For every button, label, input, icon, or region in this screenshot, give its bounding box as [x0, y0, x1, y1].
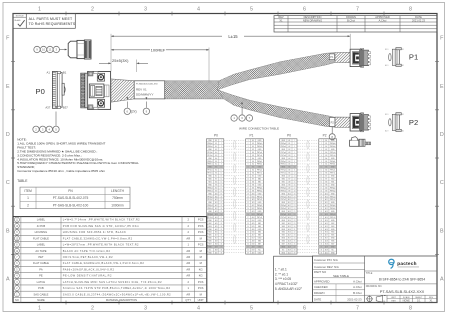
- svg-text:4: 4: [221, 149, 222, 151]
- svg-text:PART NO: PART NO: [314, 270, 327, 274]
- svg-text:3: 3: [144, 306, 147, 312]
- svg-text:PETn1: PETn1: [281, 173, 286, 175]
- svg-text:6: 6: [303, 7, 306, 13]
- svg-text:P0: P0: [287, 133, 291, 137]
- svg-text:2: 2: [221, 143, 222, 145]
- svg-text:19: 19: [320, 193, 322, 195]
- label P2 on branch: [330, 118, 335, 127]
- svg-text:7: 7: [356, 306, 359, 312]
- svg-text:4: 4: [248, 149, 249, 151]
- svg-text:100REF: 100REF: [151, 47, 166, 52]
- svg-text:SB3: SB3: [208, 226, 211, 228]
- svg-text:NEW DRAWING: NEW DRAWING: [303, 19, 322, 23]
- svg-text:B9: B9: [215, 190, 217, 192]
- svg-text:15: 15: [220, 181, 222, 183]
- svg-text:16: 16: [320, 184, 322, 186]
- svg-text:37: 37: [247, 247, 249, 249]
- svg-text:3: 3: [221, 146, 222, 148]
- svg-text:25: 25: [247, 211, 249, 213]
- svg-text:37: 37: [294, 247, 296, 249]
- svg-text:PA66+20%GF,BLACK,UL94V-0,R2: PA66+20%GF,BLACK,UL94V-0,R2: [63, 267, 115, 271]
- svg-text:33: 33: [294, 235, 296, 237]
- svg-text:4: 4: [197, 306, 200, 312]
- svg-text:PERp2: PERp2: [257, 187, 262, 189]
- svg-text:SB4: SB4: [331, 232, 334, 234]
- svg-text:RoHS: RoHS: [15, 20, 21, 22]
- svg-text:B6: B6: [252, 173, 254, 175]
- svg-text:E: E: [6, 84, 10, 90]
- svg-text:15: 15: [294, 181, 296, 183]
- cable label box: [134, 81, 165, 99]
- svg-text:SB7: SB7: [282, 244, 285, 246]
- svg-text:DRAWN: DRAWN: [314, 291, 324, 295]
- svg-text:6: 6: [248, 155, 249, 157]
- tolerance notes box: [274, 256, 313, 302]
- svg-text:8: 8: [248, 161, 249, 163]
- dimension 100REF: [111, 49, 150, 51]
- svg-text:PT-SAS-SLB-SL4X2-XXX: PT-SAS-SLB-SL4X2-XXX: [380, 289, 425, 294]
- svg-text:33: 33: [320, 235, 322, 237]
- svg-text:22: 22: [294, 202, 296, 204]
- svg-text:DRAWING NO.: DRAWING NO.: [366, 285, 383, 288]
- svg-text:PERn3: PERn3: [281, 208, 286, 210]
- svg-text:PERn2: PERn2: [281, 190, 286, 192]
- svg-text:22: 22: [220, 202, 222, 204]
- svg-text:PCS: PCS: [198, 243, 204, 247]
- svg-text:LABEL: LABEL: [37, 218, 46, 222]
- svg-text:B2: B2: [325, 149, 327, 151]
- svg-text:6: 6: [221, 155, 222, 157]
- svg-text:PERp2: PERp2: [207, 187, 212, 189]
- svg-text:B11: B11: [288, 202, 291, 204]
- svg-text:11: 11: [294, 170, 296, 172]
- svg-text:PETn0: PETn0: [281, 155, 286, 157]
- cable branch to P2: [218, 90, 336, 127]
- svg-text:B11: B11: [252, 202, 255, 204]
- svg-text:14: 14: [294, 179, 296, 181]
- svg-text:18: 18: [294, 190, 296, 192]
- svg-text:PETp2: PETp2: [207, 196, 212, 198]
- svg-text:24: 24: [294, 208, 296, 210]
- svg-text:B37: B37: [63, 106, 68, 110]
- svg-text:28: 28: [320, 220, 322, 222]
- svg-text:35: 35: [294, 241, 296, 243]
- svg-text:16: 16: [220, 184, 222, 186]
- svg-text:25±5(3X): 25±5(3X): [112, 58, 129, 63]
- svg-text:11: 11: [247, 170, 249, 172]
- svg-text:E: E: [440, 84, 444, 90]
- svg-text:PERp0: PERp0: [207, 143, 212, 145]
- svg-text:21: 21: [294, 199, 296, 201]
- svg-text:SB5: SB5: [208, 235, 211, 237]
- svg-text:SB7: SB7: [208, 244, 211, 246]
- svg-text:27: 27: [220, 217, 222, 219]
- svg-text:15: 15: [247, 181, 249, 183]
- svg-text:B10: B10: [325, 196, 328, 198]
- svg-text:B11: B11: [215, 202, 218, 204]
- svg-text:20: 20: [220, 196, 222, 198]
- svg-text:PERn3: PERn3: [257, 208, 262, 210]
- svg-text:DD/MMM/YY: DD/MMM/YY: [136, 92, 154, 96]
- svg-text:A.Chui: A.Chui: [353, 285, 362, 289]
- svg-text:AR: AR: [186, 249, 190, 253]
- svg-text:P2: P2: [323, 133, 327, 137]
- svg-text:B.Chui: B.Chui: [347, 19, 355, 23]
- svg-text:9: 9: [321, 164, 322, 166]
- svg-text:PETp3: PETp3: [207, 214, 212, 216]
- svg-text:32: 32: [294, 232, 296, 234]
- svg-text:B6: B6: [288, 173, 290, 175]
- svg-text:SB4: SB4: [282, 232, 285, 234]
- svg-text:PETp2: PETp2: [257, 196, 262, 198]
- svg-text:BLACK AC TAPE T=0.12mm,R2: BLACK AC TAPE T=0.12mm,R2: [63, 249, 111, 253]
- svg-text:B3: B3: [252, 155, 254, 157]
- svg-text:B14: B14: [215, 220, 218, 222]
- svg-text:PE: PE: [39, 274, 43, 278]
- svg-text:B19: B19: [385, 114, 388, 116]
- svg-text:1: 1: [248, 140, 249, 142]
- svg-text:8: 8: [409, 306, 412, 312]
- svg-text:30: 30: [294, 226, 296, 228]
- svg-text:A19: A19: [385, 129, 388, 132]
- svg-text:11: 11: [321, 170, 323, 172]
- svg-text:13: 13: [247, 176, 249, 178]
- svg-text:12: 12: [220, 173, 222, 175]
- svg-text:C: C: [440, 180, 444, 186]
- svg-text:PCB FOR SLIMLINE SAS 4i STR: PCB FOR SLIMLINE SAS 4i STR, AU30u",85 O…: [63, 224, 139, 228]
- svg-text:A: A: [440, 276, 444, 282]
- svg-text:B13: B13: [252, 214, 255, 216]
- svg-text:7: 7: [221, 158, 222, 160]
- svg-text:NOTICE: NOTICE: [16, 15, 24, 17]
- svg-text:PERp2: PERp2: [281, 187, 286, 189]
- title block: [313, 256, 438, 303]
- svg-text:B: B: [6, 228, 10, 234]
- svg-text:5: 5: [221, 152, 222, 154]
- svg-text:PETn0: PETn0: [207, 155, 212, 157]
- title text: [365, 270, 437, 272]
- svg-text:7: 7: [321, 158, 322, 160]
- svg-text:PERn2: PERn2: [207, 190, 212, 192]
- cable hatched segment at overmold exit: [111, 79, 134, 102]
- svg-text:23: 23: [294, 205, 296, 207]
- svg-text:PETp1: PETp1: [330, 170, 335, 172]
- svg-text:PERn0: PERn0: [281, 146, 286, 148]
- svg-text:FLAT CABLE: FLAT CABLE: [33, 261, 49, 265]
- balloons 2 3 4 5 (P0): [33, 126, 39, 132]
- svg-text:34: 34: [294, 238, 296, 240]
- svg-text:36: 36: [320, 244, 322, 246]
- svg-text:38: 38: [294, 249, 296, 251]
- svg-text:P0: P0: [214, 133, 218, 137]
- svg-text:PERn1: PERn1: [207, 164, 212, 166]
- svg-text:B10: B10: [288, 196, 291, 198]
- svg-text:B16: B16: [325, 232, 328, 234]
- svg-text:B7: B7: [325, 179, 327, 181]
- svg-text:KG: KG: [199, 267, 203, 271]
- balloon 9 leader: [145, 102, 147, 108]
- svg-text:1. * ±0.1: 1. * ±0.1: [275, 268, 287, 272]
- svg-text:PETp0: PETp0: [330, 152, 335, 154]
- leader to balloons under P0: [55, 112, 57, 126]
- svg-text:B6: B6: [215, 173, 217, 175]
- svg-text:NONE: NONE: [403, 300, 411, 303]
- svg-text:18: 18: [320, 190, 322, 192]
- svg-text:PETp1: PETp1: [281, 170, 286, 172]
- svg-text:26: 26: [220, 214, 222, 216]
- svg-text:B11: B11: [325, 202, 328, 204]
- svg-text:B17: B17: [252, 238, 255, 240]
- svg-text:34: 34: [320, 238, 322, 240]
- svg-text:B16: B16: [252, 232, 255, 234]
- svg-text:2: 2: [321, 143, 322, 145]
- svg-text:SB5: SB5: [282, 235, 285, 237]
- svg-text:B12: B12: [288, 208, 291, 210]
- svg-text:PERn0: PERn0: [207, 146, 212, 148]
- svg-text:2: 2: [91, 306, 94, 312]
- svg-text:PETp0: PETp0: [281, 152, 286, 154]
- svg-text:LATCH,SLIMLINE MINI SAS LA: LATCH,SLIMLINE MINI SAS LATCH SUS301 3/4…: [63, 280, 162, 284]
- svg-text:8i SFF-8654 to 2X4i SFF-8654: 8i SFF-8654 to 2X4i SFF-8654: [379, 277, 425, 281]
- svg-text:4i PCB: 4i PCB: [37, 224, 46, 228]
- svg-text:SB3: SB3: [258, 226, 261, 228]
- svg-text:B17: B17: [288, 238, 291, 240]
- svg-text:P1: P1: [409, 53, 418, 62]
- svg-text:39: 39: [247, 252, 249, 254]
- svg-text:14: 14: [220, 179, 222, 181]
- svg-text:PETp2: PETp2: [281, 196, 286, 198]
- svg-text:SEE TABLE: SEE TABLE: [333, 274, 349, 278]
- svg-text:1: 1: [38, 7, 41, 13]
- svg-text:SB4: SB4: [258, 232, 261, 234]
- svg-text:SB3: SB3: [331, 226, 334, 228]
- svg-text:18: 18: [220, 190, 222, 192]
- svg-text:AR: AR: [186, 236, 190, 240]
- svg-text:SB5: SB5: [258, 235, 261, 237]
- svg-text:mm: mm: [391, 300, 395, 303]
- svg-text:6: 6: [303, 306, 306, 312]
- svg-text:5: 5: [250, 306, 253, 312]
- svg-text:B19: B19: [252, 249, 255, 251]
- svg-text:SB7: SB7: [258, 244, 261, 246]
- svg-text:24: 24: [220, 208, 222, 210]
- svg-text:P2: P2: [331, 121, 335, 125]
- svg-text:KG: KG: [199, 274, 203, 278]
- svg-text:PETn2: PETn2: [330, 199, 335, 201]
- svg-text:PETn2: PETn2: [281, 199, 286, 201]
- extension lines: [110, 34, 112, 71]
- svg-text:B10: B10: [215, 196, 218, 198]
- svg-text:B5: B5: [252, 167, 254, 169]
- svg-text:10: 10: [42, 48, 46, 52]
- svg-text:B12: B12: [252, 208, 255, 210]
- svg-text:NAME: NAME: [37, 298, 45, 302]
- svg-text:34: 34: [220, 238, 222, 240]
- svg-text:16: 16: [294, 184, 296, 186]
- svg-text:B15: B15: [215, 226, 218, 228]
- svg-text:1: 1: [27, 196, 29, 200]
- svg-text:SB3: SB3: [282, 226, 285, 228]
- svg-text:B14: B14: [325, 220, 328, 222]
- svg-text:B1: B1: [252, 143, 254, 145]
- svg-text:LABEL: LABEL: [37, 243, 46, 247]
- svg-text:1: 1: [321, 140, 322, 142]
- svg-text:30: 30: [220, 226, 222, 228]
- svg-text:L=W=28*57mm ,PP,WHITE,WITH BL: L=W=28*57mm ,PP,WHITE,WITH BLACK TEXT,R2: [63, 243, 139, 247]
- svg-text:5: 5: [250, 7, 253, 13]
- svg-text:PERn2: PERn2: [257, 190, 262, 192]
- svg-text:NO: NO: [15, 298, 19, 302]
- svg-text:17: 17: [220, 187, 222, 189]
- svg-text:L±15: L±15: [228, 34, 238, 39]
- svg-text:AR: AR: [186, 292, 190, 296]
- svg-text:PETp1: PETp1: [207, 170, 212, 172]
- svg-text:33: 33: [220, 235, 222, 237]
- svg-text:B13: B13: [325, 214, 328, 216]
- svg-text:B19: B19: [288, 249, 291, 251]
- projection symbol and unit cells: [367, 296, 372, 301]
- svg-text:21: 21: [320, 199, 322, 201]
- svg-text:8: 8: [409, 7, 412, 13]
- svg-text:23: 23: [220, 205, 222, 207]
- svg-text:Connector impedance 85±10 ohm: Connector impedance 85±10 ohm , Cable im…: [17, 169, 105, 173]
- svg-text:MATERIAL DESCRIPTION: MATERIAL DESCRIPTION: [106, 298, 137, 302]
- svg-text:37: 37: [220, 247, 222, 249]
- svg-text:16: 16: [247, 184, 249, 186]
- svg-text:19: 19: [294, 193, 296, 195]
- label P1 on branch: [329, 54, 334, 60]
- svg-text:B18: B18: [215, 244, 218, 246]
- svg-text:PERp0: PERp0: [330, 143, 335, 145]
- svg-text:37: 37: [320, 247, 322, 249]
- svg-text:7: 7: [356, 7, 359, 13]
- svg-text:B8: B8: [215, 184, 217, 186]
- svg-text:HOUSING: HOUSING: [35, 230, 48, 234]
- svg-text:9: 9: [248, 164, 249, 166]
- svg-text:B7: B7: [215, 179, 217, 181]
- svg-text:B8: B8: [288, 184, 290, 186]
- svg-text:PETn1: PETn1: [330, 173, 335, 175]
- svg-text:35: 35: [247, 241, 249, 243]
- svg-text:A19: A19: [385, 64, 388, 67]
- svg-text:20: 20: [320, 196, 322, 198]
- svg-text:B3: B3: [325, 155, 327, 157]
- svg-text:36: 36: [220, 244, 222, 246]
- svg-text:pactech: pactech: [397, 261, 416, 266]
- svg-text:B4: B4: [215, 161, 217, 163]
- svg-text:B1: B1: [402, 114, 404, 116]
- svg-text:PE-LOW DENSITY,NATURAL,R2: PE-LOW DENSITY,NATURAL,R2: [63, 274, 112, 278]
- svg-text:39: 39: [294, 252, 296, 254]
- svg-text:PERp0: PERp0: [281, 143, 286, 145]
- svg-text:ALL PARTS MUST MEET: ALL PARTS MUST MEET: [29, 17, 73, 21]
- svg-text:20: 20: [294, 196, 296, 198]
- svg-text:PERp3: PERp3: [330, 205, 335, 207]
- svg-text:PETp0: PETp0: [257, 152, 262, 154]
- pactech logo: [389, 259, 394, 264]
- svg-text:B4: B4: [325, 161, 327, 163]
- svg-text:PETp2: PETp2: [330, 196, 335, 198]
- svg-text:32: 32: [220, 232, 222, 234]
- svg-text:PERp3: PERp3: [207, 205, 212, 207]
- svg-text:25: 25: [220, 211, 222, 213]
- svg-text:AC TAPE: AC TAPE: [35, 249, 46, 253]
- svg-text:B15: B15: [325, 226, 328, 228]
- balloon 6 (2x): [126, 102, 128, 108]
- svg-text:36: 36: [294, 244, 296, 246]
- svg-text:750mm: 750mm: [112, 196, 123, 200]
- svg-text:32: 32: [320, 232, 322, 234]
- svg-text:12: 12: [294, 173, 296, 175]
- svg-text:PERn1: PERn1: [257, 164, 262, 166]
- connector P1 side view: [389, 54, 391, 61]
- svg-text:SB2: SB2: [208, 223, 211, 225]
- svg-text:29: 29: [220, 223, 222, 225]
- svg-text:D: D: [440, 132, 444, 138]
- svg-text:PETn3: PETn3: [330, 217, 335, 219]
- svg-text:PETn0: PETn0: [257, 155, 262, 157]
- svg-text:2021-02-23: 2021-02-23: [347, 297, 362, 301]
- svg-text:PERp1: PERp1: [257, 161, 262, 163]
- svg-text:PETn0: PETn0: [330, 155, 335, 157]
- svg-text:PERp3: PERp3: [281, 205, 286, 207]
- svg-text:PETn2: PETn2: [207, 199, 212, 201]
- svg-text:A.Chui: A.Chui: [353, 279, 362, 283]
- svg-text:14: 14: [320, 179, 322, 181]
- dimension 25+-5(3X): [99, 62, 111, 64]
- svg-text:B13: B13: [215, 214, 218, 216]
- svg-text:5. ANGULAR ±1/2°: 5. ANGULAR ±1/2°: [275, 287, 303, 291]
- svg-text:35: 35: [320, 241, 322, 243]
- svg-text:PA: PA: [39, 267, 43, 271]
- hatched segment before P2: [335, 117, 350, 127]
- svg-text:B2: B2: [215, 149, 217, 151]
- svg-text:B1: B1: [402, 49, 404, 51]
- svg-text:B10: B10: [252, 196, 255, 198]
- svg-text:PET: PET: [38, 255, 44, 259]
- svg-text:38: 38: [220, 249, 222, 251]
- svg-text:10: 10: [220, 167, 222, 169]
- svg-text:FLAT CABLE,32AWGx2C,VW-1,PH=0: FLAT CABLE,32AWGx2C,VW-1,PH=0.8mm,R2: [63, 236, 133, 240]
- svg-text:Customer P/N: N/A: Customer P/N: N/A: [314, 258, 338, 262]
- svg-text:39: 39: [220, 252, 222, 254]
- svg-text:UNIT: UNIT: [198, 298, 204, 302]
- hatched segment before P1: [335, 52, 350, 62]
- svg-text:1: 1: [38, 306, 41, 312]
- svg-text:DATE: DATE: [314, 297, 321, 301]
- svg-text:B19: B19: [385, 49, 388, 51]
- svg-text:D: D: [6, 132, 10, 138]
- svg-text:PCS: PCS: [198, 280, 204, 284]
- svg-text:PETn1: PETn1: [207, 173, 212, 175]
- svg-text:P1: P1: [330, 55, 334, 59]
- svg-text:8: 8: [321, 161, 322, 163]
- svg-text:29: 29: [320, 223, 322, 225]
- svg-text:30: 30: [247, 226, 249, 228]
- svg-text:PCS: PCS: [198, 218, 204, 222]
- svg-text:10: 10: [247, 167, 249, 169]
- svg-text:WIRE CONNECTION TABLE: WIRE CONNECTION TABLE: [239, 126, 279, 130]
- svg-text:25: 25: [294, 211, 296, 213]
- svg-text:HOUSING FOR SFF-8654 4i ST: HOUSING FOR SFF-8654 4i STR, BLACK: [63, 230, 126, 234]
- connector P2 front view: [350, 114, 362, 131]
- svg-text:AR: AR: [186, 255, 190, 259]
- svg-text:5: 5: [321, 152, 322, 154]
- svg-text:35: 35: [220, 241, 222, 243]
- svg-text:AR: AR: [186, 261, 190, 265]
- svg-text:24: 24: [320, 208, 322, 210]
- svg-text:2: 2: [27, 203, 29, 207]
